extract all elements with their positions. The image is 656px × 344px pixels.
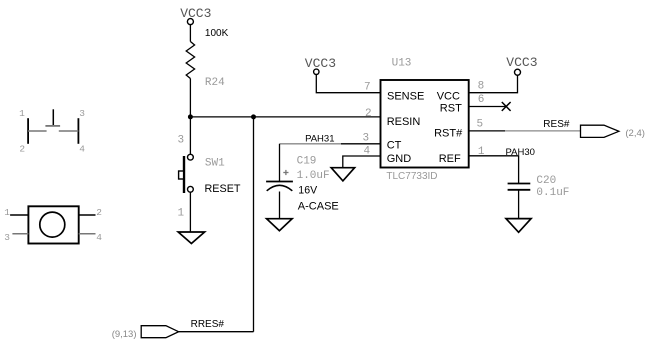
connector RRES# off-page input — [141, 326, 178, 338]
wire RRES# to riser — [179, 331, 254, 333]
svg-text:VCC3: VCC3 — [180, 6, 211, 21]
wire SW1 to ground — [189, 192, 191, 232]
svg-text:A-CASE: A-CASE — [298, 201, 339, 213]
svg-text:RESIN: RESIN — [387, 116, 421, 128]
switch symbol (library, top-left) — [19, 108, 85, 155]
svg-text:4: 4 — [96, 232, 102, 243]
wire bus to RESIN pin 2 — [190, 116, 380, 118]
svg-text:RESET: RESET — [205, 183, 241, 195]
ground under C20 — [506, 219, 531, 233]
svg-text:7: 7 — [364, 82, 371, 94]
node junction at RRES# riser — [251, 114, 256, 119]
power VCC3 (at VCC pin 8) — [506, 55, 537, 75]
svg-text:1: 1 — [4, 207, 10, 218]
svg-text:2: 2 — [96, 207, 102, 218]
svg-text:4: 4 — [79, 144, 85, 155]
wire C19 to ground — [279, 192, 281, 219]
op IC U13 TLC7733ID body — [381, 57, 469, 182]
ground under SW1 — [178, 232, 204, 244]
wire REF pin 1 to C20 — [469, 156, 519, 184]
svg-text:RRES#: RRES# — [191, 319, 225, 330]
svg-text:C19: C19 — [297, 155, 317, 167]
svg-text:REF: REF — [439, 153, 461, 165]
switch SW1 — [179, 154, 241, 195]
wire GND pin 4 to ground — [343, 156, 381, 168]
svg-text:VCC3: VCC3 — [305, 56, 336, 71]
wire bus to SW1 — [189, 117, 191, 154]
footprint symbol (library, bottom-left) — [4, 206, 102, 243]
svg-text:PAH30: PAH30 — [506, 147, 535, 158]
node junction at R24/bus — [188, 114, 193, 119]
ground under IC GND — [331, 168, 354, 181]
svg-text:1.0uF: 1.0uF — [297, 170, 330, 182]
svg-text:100K: 100K — [205, 28, 229, 39]
svg-text:VCC3: VCC3 — [506, 55, 537, 70]
svg-text:SW1: SW1 — [205, 158, 225, 170]
wire R24 to bus — [189, 79, 191, 117]
resistor R24 — [186, 28, 228, 89]
svg-text:(2,4): (2,4) — [625, 128, 645, 139]
svg-text:3: 3 — [4, 232, 10, 243]
svg-text:TLC7733ID: TLC7733ID — [386, 171, 437, 182]
svg-text:16V: 16V — [298, 185, 318, 197]
capacitor C19 (polarized) — [266, 155, 339, 212]
power VCC3 (at SENSE) — [305, 56, 336, 75]
svg-text:1: 1 — [178, 207, 185, 219]
svg-text:PAH31: PAH31 — [305, 134, 334, 145]
svg-text:U13: U13 — [392, 57, 412, 69]
power VCC3 (top, net at R24) — [180, 6, 211, 25]
net RES# wire (gray segment) — [505, 130, 581, 132]
svg-text:6: 6 — [478, 94, 485, 106]
svg-text:GND: GND — [387, 153, 412, 165]
svg-text:3: 3 — [79, 108, 85, 119]
svg-text:3: 3 — [178, 134, 185, 146]
svg-text:(9,13): (9,13) — [112, 329, 137, 340]
svg-text:5: 5 — [477, 119, 484, 131]
svg-text:RES#: RES# — [543, 119, 570, 130]
wire PAH31 to CT pin 3 — [341, 143, 381, 145]
svg-text:2: 2 — [365, 108, 372, 120]
svg-text:3: 3 — [363, 133, 370, 145]
svg-text:RST: RST — [440, 102, 462, 114]
svg-text:C20: C20 — [536, 175, 556, 187]
wire VCC pin 8 to VCC3 — [469, 75, 518, 92]
svg-text:RST#: RST# — [434, 128, 463, 140]
wire VCC3 to R24 — [189, 25, 191, 42]
ground under C19 — [267, 219, 293, 231]
wire riser to RRES# — [253, 117, 255, 332]
capacitor C20 — [508, 175, 570, 199]
no-connect X on pin 6 — [502, 102, 511, 111]
svg-text:R24: R24 — [205, 77, 225, 89]
svg-text:VCC: VCC — [437, 90, 460, 102]
wire RST pin 6 stub — [469, 106, 507, 108]
wire RST# pin 5 (black stub) — [469, 130, 505, 132]
wire PAH31 down to C19 — [279, 144, 281, 182]
net PAH31 wire (gray segment) — [280, 143, 342, 145]
connector RES# off-page output — [581, 125, 619, 137]
svg-text:2: 2 — [19, 144, 25, 155]
svg-text:0.1uF: 0.1uF — [536, 187, 569, 199]
svg-text:SENSE: SENSE — [387, 90, 424, 102]
wire C20 to ground — [518, 190, 520, 219]
svg-text:1: 1 — [19, 108, 25, 119]
svg-text:8: 8 — [478, 81, 485, 93]
svg-text:CT: CT — [387, 140, 402, 152]
wire VCC3 to SENSE pin 7 — [316, 75, 380, 93]
